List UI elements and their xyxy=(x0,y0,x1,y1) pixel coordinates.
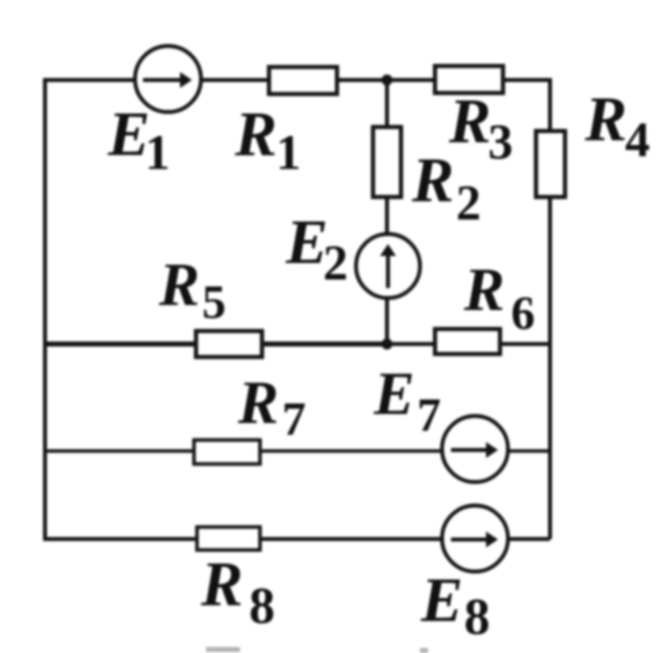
wire right vertical: corner to R4 xyxy=(548,78,552,131)
source E7 xyxy=(442,416,508,482)
resistor R8 xyxy=(197,527,260,550)
wire middle line: node B to R6 xyxy=(387,342,435,346)
label R1 xyxy=(234,99,301,180)
label E8 xyxy=(420,565,490,646)
resistor R1 xyxy=(269,67,337,94)
wire middle line: R5 to node B xyxy=(262,342,387,347)
svg-text:R: R xyxy=(234,99,277,169)
svg-text:2: 2 xyxy=(456,174,481,230)
cropped caption remnant dot xyxy=(420,648,428,653)
svg-text:7: 7 xyxy=(417,389,441,442)
wire bottom: left corner to R8 xyxy=(43,537,197,541)
svg-text:1: 1 xyxy=(145,124,170,180)
wire bottom: R8 to E8 xyxy=(260,537,441,541)
svg-text:R: R xyxy=(463,257,505,324)
svg-text:R: R xyxy=(237,370,279,437)
wire top: E1 to R1 xyxy=(202,78,269,82)
node B junction dot xyxy=(382,339,393,350)
wire middle line: left to R5 xyxy=(43,342,196,347)
wire middle branch: node A to R2 xyxy=(385,80,389,127)
label R6 xyxy=(463,257,535,340)
wire top: R1 to node A xyxy=(337,78,435,82)
svg-text:7: 7 xyxy=(282,393,306,446)
svg-text:R: R xyxy=(448,86,491,156)
wire top: R3 to top-right corner xyxy=(503,78,550,82)
svg-text:R: R xyxy=(411,145,454,215)
label R2 xyxy=(411,145,481,230)
svg-text:2: 2 xyxy=(323,234,348,290)
svg-text:4: 4 xyxy=(625,111,650,167)
label R5 xyxy=(158,252,226,329)
svg-text:5: 5 xyxy=(202,276,226,329)
wire left vertical xyxy=(43,80,47,539)
svg-text:1: 1 xyxy=(276,124,301,180)
resistor R3 xyxy=(435,66,503,93)
label E2 xyxy=(285,207,348,290)
svg-text:8: 8 xyxy=(249,578,275,635)
resistor R6 xyxy=(435,329,500,354)
wire R7 line: left to R7 xyxy=(43,449,194,452)
wire middle branch: R2 to E2 xyxy=(385,197,389,234)
source E8 xyxy=(442,506,508,572)
label E1 xyxy=(107,99,170,180)
wire middle line: R6 to right vertical xyxy=(500,342,550,346)
wire R7 line: R7 to E7 xyxy=(260,449,441,452)
svg-text:E: E xyxy=(107,99,150,169)
resistor R5 xyxy=(196,331,262,357)
svg-text:6: 6 xyxy=(511,287,535,340)
source E1 xyxy=(135,46,201,112)
wire middle branch: E2 to node B xyxy=(385,298,389,344)
label R7 xyxy=(237,370,306,446)
cropped caption remnant bar xyxy=(206,647,240,652)
svg-text:E: E xyxy=(285,207,328,277)
svg-text:R: R xyxy=(584,84,627,154)
resistor R2 xyxy=(373,127,401,197)
wire right vertical: R4 to bottom-right corner xyxy=(548,197,552,539)
node A junction dot xyxy=(382,75,393,86)
resistor R4 xyxy=(536,131,565,197)
svg-text:8: 8 xyxy=(464,589,490,646)
wire R7 line: E7 to right vertical xyxy=(509,449,550,452)
label R4 xyxy=(584,84,650,167)
resistor R7 xyxy=(194,440,260,464)
svg-text:3: 3 xyxy=(488,113,513,169)
svg-text:R: R xyxy=(158,252,200,319)
label E7 xyxy=(373,361,441,442)
label R3 xyxy=(448,86,513,169)
svg-text:E: E xyxy=(373,361,415,428)
label R8 xyxy=(200,549,275,635)
source E2 xyxy=(356,234,420,298)
wire top: left corner to E1 xyxy=(43,78,135,82)
svg-text:E: E xyxy=(420,565,463,635)
wire bottom: E8 to bottom-right corner xyxy=(509,537,550,541)
svg-text:R: R xyxy=(200,549,243,619)
